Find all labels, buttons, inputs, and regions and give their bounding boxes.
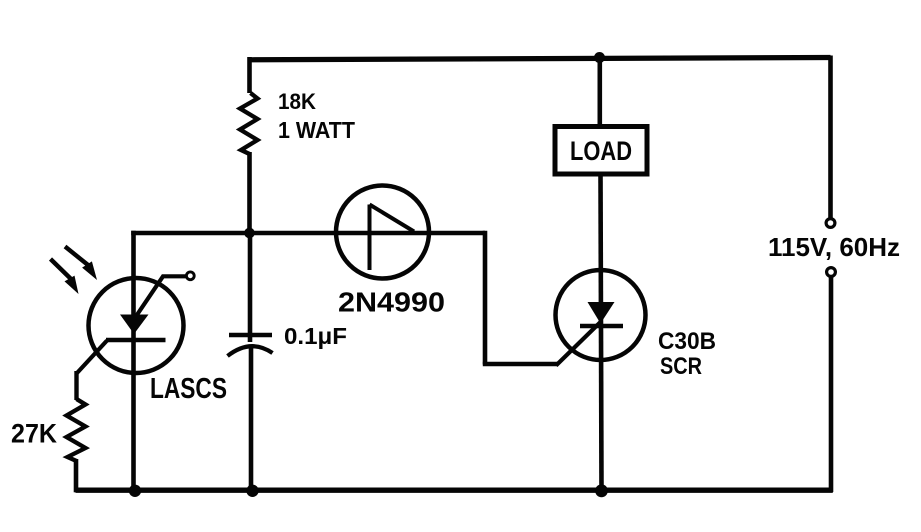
resistor R2 27K lead from cathode (diagonal)	[77, 341, 107, 374]
capacitor C1 bottom plate (curved)	[228, 346, 273, 356]
light arrow 1 head	[82, 261, 97, 280]
AC source lower terminal	[827, 268, 836, 277]
junction node bottom rail capacitor	[246, 485, 258, 497]
svg-text:27K: 27K	[11, 419, 57, 449]
LOAD box	[555, 127, 647, 175]
wire right drop to upper terminal	[828, 56, 833, 219]
transistor Q1 2N4990 circle	[336, 186, 429, 279]
svg-text:115V, 60Hz: 115V, 60Hz	[768, 232, 900, 262]
wire gate horizontal to SCR	[483, 362, 558, 367]
transistor Q1 2N4990 diagonal	[370, 205, 415, 232]
light arrow 1 shaft	[65, 247, 88, 266]
wire SCR gate diagonal	[556, 322, 601, 366]
svg-text:C30B: C30B	[658, 328, 716, 355]
SCR Q3 anode triangle	[588, 302, 615, 324]
svg-text:2N4990: 2N4990	[338, 287, 445, 318]
light arrow 2 shaft	[51, 259, 72, 279]
wire gate bus y=233	[131, 231, 485, 236]
svg-text:1 WATT: 1 WATT	[278, 117, 356, 143]
transistor Q1 2N4990 vertical bar	[368, 205, 372, 271]
junction node bottom rail LASCS	[129, 485, 141, 497]
wire LASCS anode vertical (through circle to bottom rail)	[131, 231, 136, 491]
resistor R1 18K bottom lead	[247, 152, 252, 235]
resistor R1 18K zigzag	[240, 93, 258, 154]
wire top rail	[250, 58, 831, 60]
junction node bottom rail SCR	[595, 484, 608, 497]
wire capacitor top lead	[248, 233, 253, 342]
resistor R2 27K zigzag	[67, 399, 86, 461]
LASCS Q2 anode triangle	[120, 315, 149, 335]
svg-text:LOAD: LOAD	[570, 136, 632, 166]
wire capacitor bottom lead	[249, 345, 254, 491]
resistor R2 27K bottom lead	[74, 459, 79, 492]
wire LOAD top lead	[597, 58, 602, 131]
resistor R2 27K top lead	[74, 371, 78, 400]
capacitor C1 top plate	[229, 333, 272, 337]
wire SCR anode vertical (LOAD to bottom rail through circle)	[601, 172, 602, 491]
SCR Q3 cathode bar	[580, 324, 623, 328]
junction node at resistor/gate bus	[244, 228, 255, 239]
svg-text:LASCS: LASCS	[150, 373, 227, 405]
LASCS Q2 gate diagonal to terminal	[135, 276, 187, 318]
LASCS Q2 cathode bar	[106, 338, 166, 342]
SCR Q3 C30B circle	[556, 270, 646, 360]
wire right leg down from 2N4990	[483, 231, 488, 365]
svg-text:18K: 18K	[278, 89, 316, 114]
svg-text:SCR: SCR	[660, 353, 702, 380]
light arrow 2 head	[65, 276, 79, 294]
wire bottom rail	[76, 488, 833, 493]
svg-text:0.1μF: 0.1μF	[284, 323, 347, 349]
AC source upper terminal	[826, 219, 835, 228]
wire right drop lower (terminal to bottom rail)	[829, 277, 834, 493]
LASCS Q2 circle	[89, 278, 184, 373]
junction node at top rail / LOAD	[594, 52, 605, 63]
LASCS Q2 gate open terminal	[186, 272, 194, 280]
resistor R1 18K top lead	[247, 57, 252, 93]
